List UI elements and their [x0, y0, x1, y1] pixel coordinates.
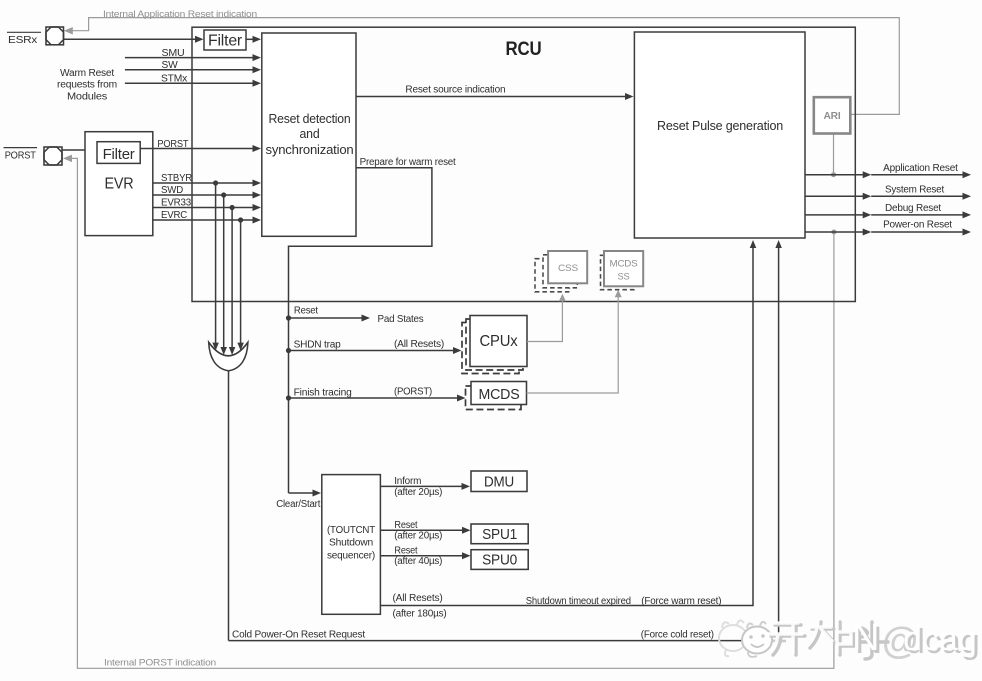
svg-text:Inform: Inform	[394, 476, 421, 487]
wire SMU	[125, 57, 253, 59]
svg-text:synchronization: synchronization	[266, 143, 354, 157]
box CSS shadow dashed 2	[535, 259, 569, 292]
wire ARI to Application Reset junction	[833, 134, 835, 175]
wire SWD	[153, 194, 253, 196]
svg-text:N: N	[852, 617, 878, 659]
wire STBYR	[153, 182, 253, 184]
svg-text:System Reset: System Reset	[885, 184, 944, 195]
wire ESRx pad to Filter	[64, 38, 196, 40]
watermark CJK glyphs kai zhi hu	[771, 622, 888, 659]
svg-text:SPU0: SPU0	[482, 552, 517, 568]
box Filter (ESR)	[204, 30, 246, 50]
svg-text:(after 180µs): (after 180µs)	[393, 609, 447, 620]
svg-text:RCU: RCU	[506, 38, 542, 60]
svg-text:(PORST): (PORST)	[394, 387, 432, 398]
box MCDS SS shadow dashed	[601, 255, 635, 289]
box CSS shadow dashed 1	[543, 255, 577, 288]
wire Internal Application Reset indication (gray path from ARI to ESRx pad)	[72, 18, 899, 115]
svg-text:Clear/Start: Clear/Start	[276, 499, 320, 510]
svg-text:PORST: PORST	[157, 139, 188, 150]
pad PORST	[44, 147, 62, 165]
wire Prepare for warm reset path	[289, 168, 432, 493]
wire Internal PORST indication (gray path from Power-on junction to PORST pad)	[71, 158, 834, 668]
svg-text:CPUx: CPUx	[480, 333, 518, 350]
svg-text:Shutdown: Shutdown	[329, 538, 373, 549]
svg-text:Debug Reset: Debug Reset	[885, 203, 941, 214]
svg-text:Warm Reset: Warm Reset	[60, 68, 114, 79]
svg-text:SW: SW	[162, 60, 179, 71]
wire Application Reset	[805, 174, 863, 176]
wire Reset to SPU0	[380, 555, 462, 557]
box TOUTCNT Shutdown sequencer	[322, 475, 381, 615]
node junction Finish tracing	[286, 395, 291, 400]
wire Shutdown timeout expired (force warm reset)	[380, 246, 753, 606]
node junction Reset	[286, 315, 291, 320]
svg-text:ARI: ARI	[824, 111, 841, 122]
svg-text:ESRx: ESRx	[8, 35, 37, 46]
wire Cold Power-On Reset Request (force cold reset)	[229, 246, 779, 641]
svg-text:STMx: STMx	[161, 74, 187, 85]
box MCDS SS	[604, 251, 643, 286]
wire Reset to SPU1	[380, 529, 462, 531]
pad ESRx	[46, 27, 64, 45]
svg-text:MCDS: MCDS	[610, 259, 638, 270]
node junction SWD	[221, 192, 226, 197]
node junction EVR33	[230, 205, 235, 210]
box Filter (EVR)	[97, 142, 140, 164]
svg-text:CSS: CSS	[558, 263, 578, 274]
svg-text:MCDS: MCDS	[479, 387, 520, 403]
wire STMx	[125, 82, 253, 84]
svg-text:(Force cold reset): (Force cold reset)	[641, 629, 714, 640]
svg-text:(after 40µs): (after 40µs)	[394, 556, 442, 567]
svg-text:EVR33: EVR33	[161, 198, 192, 209]
svg-text:EVR: EVR	[105, 175, 134, 192]
svg-text:DMU: DMU	[484, 474, 514, 490]
svg-text:SHDN trap: SHDN trap	[294, 339, 342, 350]
svg-text:Shutdown timeout expired: Shutdown timeout expired	[526, 596, 631, 607]
box EVR	[85, 132, 153, 236]
svg-text:Reset: Reset	[394, 545, 417, 556]
box MCDS	[471, 382, 527, 405]
svg-text:and: and	[300, 127, 320, 141]
svg-text:Cold Power-On Reset Request: Cold Power-On Reset Request	[232, 629, 365, 640]
wire MCDS to MCDS SS (gray)	[527, 296, 619, 393]
svg-text:requests from: requests from	[57, 80, 117, 91]
box SPU1	[471, 524, 528, 544]
node junction EVRC	[238, 217, 243, 222]
svg-text:(All Resets): (All Resets)	[393, 593, 443, 604]
svg-text:PORST: PORST	[5, 150, 36, 161]
svg-text:Modules: Modules	[67, 92, 107, 103]
wire Filter to Reset detection	[246, 38, 253, 40]
wire PORST pad to EVR Filter	[62, 149, 88, 151]
box CPUx	[470, 316, 527, 367]
box Reset Pulse generation	[634, 32, 805, 238]
svg-text:dcag: dcag	[903, 620, 977, 658]
svg-text:Power-on Reset: Power-on Reset	[883, 220, 952, 231]
wire CPUx to CSS (gray)	[527, 300, 562, 342]
svg-text:Filter: Filter	[103, 147, 135, 163]
svg-text:Application Reset: Application Reset	[883, 163, 958, 174]
svg-text:(Force warm reset): (Force warm reset)	[641, 596, 721, 607]
svg-text:(TOUTCNT: (TOUTCNT	[327, 525, 375, 536]
svg-text:Finish tracing: Finish tracing	[294, 387, 352, 398]
node gray junction on Power-on Reset line	[831, 230, 836, 235]
svg-text:(after 20µs): (after 20µs)	[394, 531, 442, 542]
wire SHDN trap to CPUx	[289, 350, 454, 352]
gate OR (wired-OR of EVR signals)	[209, 342, 248, 371]
wire System Reset	[805, 195, 863, 197]
watermark smiley face	[742, 622, 786, 657]
wire PORST to Reset detection	[140, 148, 253, 150]
wire STBYR down to OR gate	[215, 183, 217, 343]
wire Reset to Pad States	[289, 317, 363, 319]
svg-text:Reset: Reset	[394, 520, 417, 531]
svg-text:Reset detection: Reset detection	[269, 112, 351, 126]
svg-text:SWD: SWD	[161, 185, 183, 196]
box SPU0	[471, 550, 528, 570]
svg-text:Internal Application Reset in: Internal Application Reset indication	[103, 9, 257, 20]
wire OR gate output down	[228, 371, 230, 641]
node junction STBYR	[213, 180, 218, 185]
svg-text:Reset: Reset	[294, 305, 318, 316]
box CPUx shadow dashed 1	[466, 319, 523, 370]
svg-text:(All Resets): (All Resets)	[394, 339, 444, 350]
svg-text:EVRC: EVRC	[161, 210, 187, 221]
wire SWD down to OR gate	[223, 195, 225, 347]
watermark doodle creature	[719, 620, 747, 656]
box Reset detection and synchronization	[262, 33, 356, 236]
svg-text:Prepare for warm reset: Prepare for warm reset	[360, 157, 456, 168]
wire SW	[125, 69, 253, 71]
box ARI	[814, 97, 851, 133]
wire Debug Reset	[805, 214, 863, 216]
svg-text:STBYR: STBYR	[161, 173, 192, 184]
svg-text:Internal PORST indication: Internal PORST indication	[104, 657, 216, 668]
svg-text:sequencer): sequencer)	[327, 551, 375, 562]
svg-text:Pad States: Pad States	[378, 313, 424, 325]
svg-text:SMU: SMU	[162, 48, 185, 59]
wire Inform to DMU	[380, 485, 462, 487]
svg-text:(after 20µs): (after 20µs)	[394, 487, 442, 498]
svg-text:Filter: Filter	[208, 33, 243, 50]
svg-text:SPU1: SPU1	[482, 527, 517, 543]
wire EVR33	[153, 207, 253, 209]
box DMU	[471, 471, 527, 492]
box CPUx shadow dashed 2	[462, 323, 519, 374]
wire EVRC	[153, 219, 253, 221]
box RCU outline	[192, 27, 855, 301]
wire Reset source indication	[356, 96, 626, 98]
node gray junction on Application Reset line	[831, 172, 836, 177]
box MCDS shadow dashed	[466, 386, 522, 410]
svg-text:Reset Pulse generation: Reset Pulse generation	[657, 119, 783, 133]
wire Finish tracing to MCDS	[289, 397, 458, 399]
wire EVRC down to OR gate	[240, 220, 242, 343]
box CSS	[548, 251, 587, 283]
svg-text:SS: SS	[618, 272, 630, 283]
wire Power-on Reset	[805, 231, 863, 233]
svg-text:Reset source indication: Reset source indication	[405, 84, 505, 95]
wire EVR33 down to OR gate	[231, 208, 233, 348]
node junction SHDN trap	[286, 348, 291, 353]
